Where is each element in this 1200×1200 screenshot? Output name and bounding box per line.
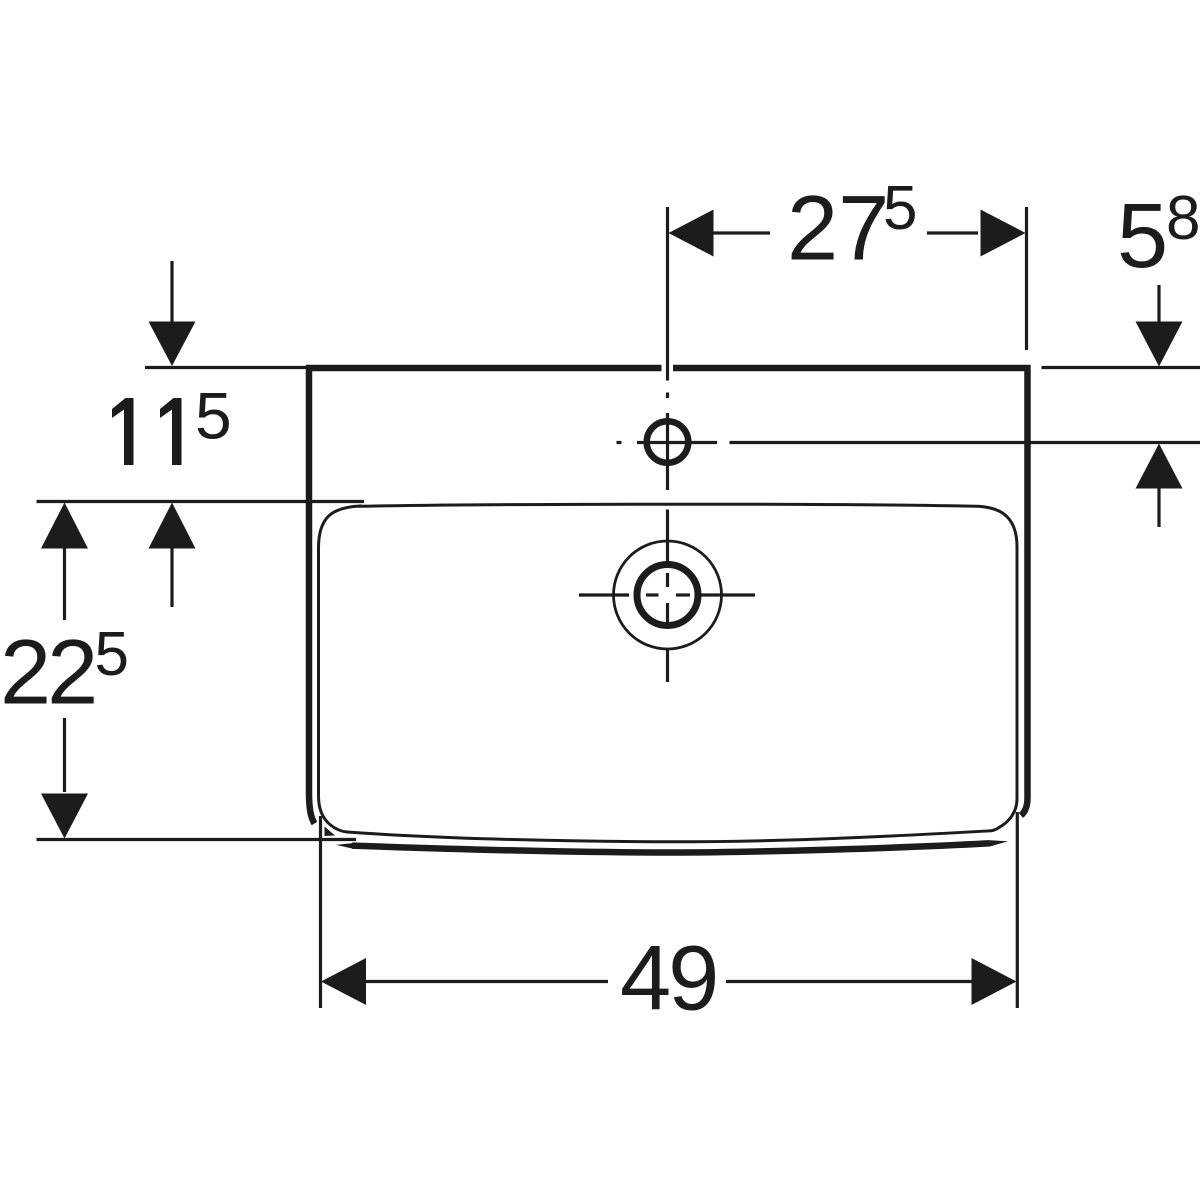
11.5 dimension text digit 1 <box>112 398 134 465</box>
49 right extension line <box>1016 812 1019 1008</box>
vertical centerline below drain <box>666 649 669 682</box>
11.5 down arrowhead <box>149 322 196 367</box>
49 left extension line <box>319 816 322 1008</box>
washbasin outer outline left edge <box>309 371 315 824</box>
vertical centerline below inner rim <box>666 510 669 565</box>
22.5 down arrow tail <box>63 718 66 792</box>
22.5 up arrowhead <box>41 503 88 549</box>
washbasin outer outline top edge right segment <box>673 365 1031 372</box>
27.5 right extension line <box>1025 207 1028 350</box>
svg-text:5: 5 <box>883 174 917 243</box>
5.8 up arrowhead <box>1136 444 1183 489</box>
49 left arrowhead <box>321 958 366 1005</box>
11.5 up arrow tail <box>170 549 173 608</box>
27.5 right arrowhead <box>981 210 1026 257</box>
tap hole horizontal centerline through hole <box>637 441 717 444</box>
5.8 down arrow tail <box>1157 285 1160 322</box>
vertical centerline through tap hole <box>666 413 669 490</box>
corner pinch bottom-left <box>325 827 336 837</box>
washbasin outer outline bottom edge <box>352 843 990 852</box>
svg-text:27: 27 <box>787 178 889 280</box>
svg-text:5: 5 <box>195 379 232 453</box>
svg-text:8: 8 <box>1166 184 1200 253</box>
22.5 bottom dimension line <box>37 838 357 841</box>
svg-text:5: 5 <box>1117 185 1168 287</box>
tap hole circle <box>647 421 689 463</box>
drain inner circle <box>637 565 698 626</box>
11.5 / 22.5 shared dimension line <box>37 500 365 503</box>
washbasin inner rim outline <box>319 504 1018 842</box>
22.5 up arrow tail <box>63 549 66 621</box>
11.5 dimension text digit 1 (second) <box>160 398 182 465</box>
washbasin outer outline right edge <box>1021 371 1028 816</box>
vertical centerline short dash above drain center <box>666 573 669 587</box>
svg-text:49: 49 <box>620 928 716 1030</box>
svg-text:5: 5 <box>95 620 129 689</box>
washbasin outer outline bottom edge right taper <box>990 840 1008 846</box>
11.5 down arrow tail <box>170 261 173 322</box>
top edge reference line left of basin <box>145 366 307 369</box>
top edge reference line right of basin (5.8) <box>1042 366 1200 369</box>
vertical centerline short dash below drain center <box>666 603 669 626</box>
5.8 up arrow tail <box>1157 489 1160 528</box>
svg-text:22: 22 <box>0 622 94 724</box>
drain outer circle <box>614 541 722 649</box>
11.5 up arrowhead <box>149 503 196 549</box>
vertical centerline / 27.5 left extension line <box>666 207 669 381</box>
washbasin outer outline top edge left segment <box>306 365 662 372</box>
27.5 dimension line right tail <box>927 231 978 234</box>
5.8 down arrowhead <box>1136 322 1183 367</box>
22.5 down arrowhead <box>41 794 88 839</box>
49 dimension line left tail <box>366 980 608 983</box>
tap hole centerline extension to right edge (5.8 reference) <box>730 441 1200 444</box>
vertical centerline dash dot <box>666 393 669 399</box>
drain horizontal centerline left <box>579 593 629 596</box>
49 dimension line right tail <box>726 980 972 983</box>
27.5 left arrowhead <box>669 210 714 257</box>
drain horizontal centerline center-left dash <box>646 593 659 596</box>
tap hole horizontal centerline dot <box>617 441 622 444</box>
49 right arrowhead <box>972 958 1017 1005</box>
27.5 dimension line left tail <box>713 231 770 234</box>
drain horizontal centerline right <box>700 593 755 596</box>
washbasin outer outline bottom edge left taper <box>336 843 354 849</box>
drain horizontal centerline center-right dash <box>676 593 690 596</box>
